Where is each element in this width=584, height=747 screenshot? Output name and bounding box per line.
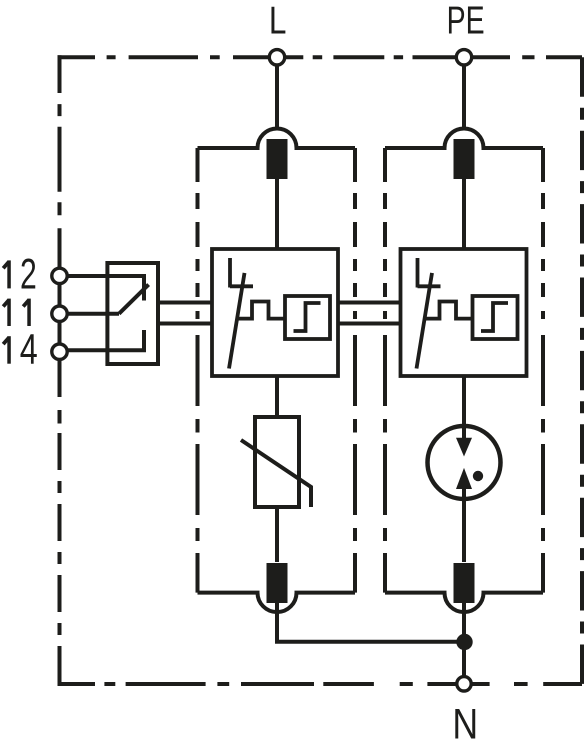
label 12 [3,260,9,288]
double line left disconnector to right disconnector [338,301,401,305]
left module bottom border with plug bump [198,593,356,613]
fixed contact stub L [228,258,232,288]
spark gap arrow down [456,438,472,457]
wire L terminal down to top plug [275,57,279,128]
double line remote box to left disconnector [158,301,212,305]
right module dashed border left [383,148,387,593]
terminal 12 [52,268,67,283]
step symbol in trigger box L [294,303,321,331]
varistor body [255,417,299,507]
trigger box PE [473,296,518,339]
wire terminal 12 with hook contact [67,276,144,301]
svg-text:L: L [269,0,287,42]
contact tick PE [418,284,441,288]
plug contact top PE [454,139,475,179]
wire top plug to disconnector box PE [462,179,466,249]
terminal 14 [52,344,67,359]
disconnector box L [212,249,338,376]
svg-text:PE: PE [447,0,485,43]
enclosure dash-dot border left [58,55,62,230]
plug contact top L [267,139,288,179]
contact tick L [230,284,253,288]
step symbol in trigger box PE [481,303,508,331]
trigger box L [285,296,330,339]
wire spark gap to bottom plug [462,487,466,562]
fixed contact stub PE [416,258,420,288]
wire top plug to disconnector box L [275,179,279,249]
thermal step line L [237,302,285,319]
spark gap arrow up [456,468,472,489]
plug contact bottom PE [454,563,475,603]
enclosure dash-dot border right [580,57,584,684]
disconnector box PE [401,249,527,376]
svg-text:N: N [452,700,478,747]
wire varistor to bottom plug [275,507,279,562]
thermal step line PE [425,302,473,319]
left module dashed border left [196,148,200,593]
varistor diagonal stroke [241,440,311,507]
remote signalling contact box [107,263,158,364]
wire disconnector box to spark gap [462,376,466,441]
enclosure dash-dot border bottom [58,682,583,686]
right module bottom border with plug bump [385,593,543,613]
terminal 11 [52,306,67,321]
switch blade remote contact [119,285,149,314]
spark gap trigger dot [473,471,483,481]
switch blade L [229,273,245,369]
terminal PE [456,50,471,65]
right module dashed border right [541,148,545,593]
junction dot N node [456,634,472,650]
wire PE terminal down to top plug [462,57,466,128]
terminal N [457,677,471,691]
terminal L [269,50,284,65]
svg-text:4: 4 [20,325,38,372]
svg-text:2: 2 [20,250,37,297]
wire bottom plug PE to N terminal [462,602,466,683]
wire bottom plug L down and across to N node [277,602,464,642]
wire terminal 14 with hook contact [67,330,144,350]
wire disconnector box to varistor [275,376,279,417]
right module top border with plug bump [385,129,543,149]
enclosure dash-dot border top [58,55,583,59]
switch blade PE [417,273,433,369]
left module dashed border right [353,148,357,593]
label 11 [3,299,29,326]
plug contact bottom L [267,563,288,603]
wire terminal 11 [67,312,119,316]
label 14 [3,336,9,364]
left module top border with plug bump [198,129,356,149]
spark gap circle [428,426,501,499]
